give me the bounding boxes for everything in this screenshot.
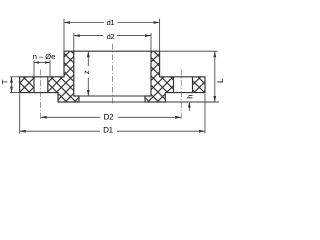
- socket shoulder line across bore: [74, 95, 151, 97]
- flange left mid segment with hub wall and spigot: [48, 51, 79, 102]
- dimension L: [213, 51, 225, 102]
- plate bottom line across right bolt hole: [174, 92, 193, 94]
- flange plate right outer segment: [193, 77, 206, 93]
- top face line across bore: [74, 50, 151, 52]
- svg-text:n – Øe: n – Øe: [33, 52, 56, 61]
- svg-text:D1: D1: [103, 126, 114, 135]
- dimension d2: [74, 32, 151, 51]
- dimension D2: [41, 112, 182, 121]
- flange plate left outer segment: [20, 77, 34, 93]
- right bolt hole centerline: [180, 70, 182, 120]
- dimension h: [186, 94, 195, 110]
- plate top line across left bolt hole: [34, 76, 48, 78]
- svg-text:d2: d2: [107, 32, 115, 41]
- dimension d1: [64, 18, 160, 51]
- svg-text:h: h: [186, 94, 195, 98]
- flange right mid segment with hub wall and spigot: [145, 51, 174, 102]
- svg-text:z: z: [82, 70, 91, 74]
- bottom face line across bore with extension to L: [79, 101, 219, 103]
- plate bottom line across left bolt hole: [34, 92, 48, 94]
- svg-text:T: T: [1, 79, 10, 84]
- main centerline: [111, 44, 113, 105]
- dimension z: [82, 51, 91, 96]
- left bolt hole centerline: [40, 70, 42, 120]
- svg-text:d1: d1: [107, 18, 115, 27]
- dimension T: [1, 77, 20, 93]
- top face extension line to L: [160, 50, 218, 52]
- svg-text:D2: D2: [104, 112, 115, 121]
- dimension n-Øe (bolt hole): [33, 52, 56, 76]
- plate top line across right bolt hole: [174, 76, 193, 78]
- dimension D1: [20, 94, 205, 135]
- svg-text:L: L: [215, 78, 225, 83]
